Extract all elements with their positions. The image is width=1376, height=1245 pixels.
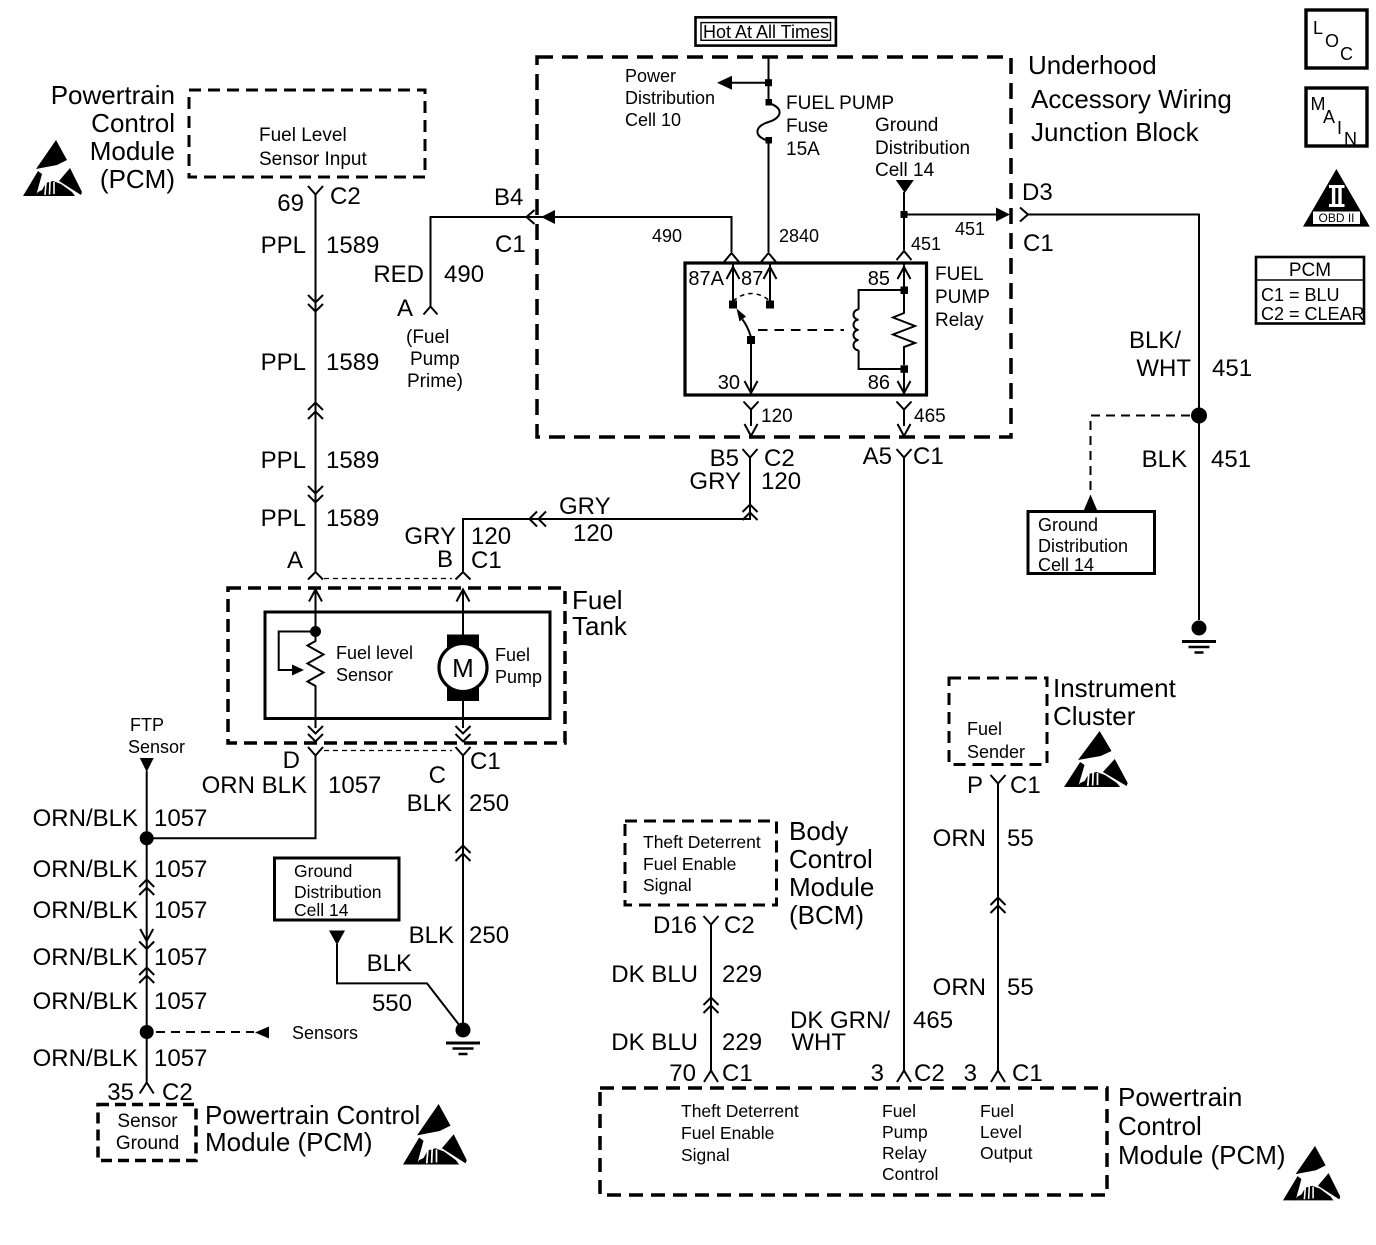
wire DK BLU 229 (BCM to PCM) — [710, 933, 712, 1070]
label BLK 451 — [1142, 446, 1251, 473]
module label: Powertrain Control Module (PCM) bottom-right — [1118, 1082, 1286, 1170]
wire 451 (ground distribution to relay pin 85) — [903, 192, 905, 250]
chevron at relay pin 85 — [897, 251, 912, 260]
svg-text:M: M — [452, 653, 474, 683]
splice chevrons (up) on DK BLU — [704, 998, 719, 1014]
terminal B chevron at fuel tank — [456, 572, 471, 580]
svg-text:35: 35 — [107, 1079, 134, 1106]
fuel level sensor junction dot — [310, 626, 321, 637]
svg-text:465: 465 — [914, 406, 946, 427]
wire BLK/WHT 451 (D3 to ground) — [1029, 215, 1200, 621]
connector chevron at PCM (3/C2) — [897, 1071, 911, 1083]
label: Theft Deterrent Fuel Enable Signal (BCM) — [643, 832, 761, 895]
svg-text:P: P — [967, 772, 983, 799]
svg-text:PUMP: PUMP — [935, 287, 990, 308]
svg-text:Fuel Enable: Fuel Enable — [681, 1123, 774, 1143]
svg-text:Sensor: Sensor — [336, 665, 393, 685]
svg-text:451: 451 — [1212, 355, 1252, 382]
module label: Powertrain Control Module (PCM) bottom-left — [205, 1100, 420, 1157]
svg-text:FUEL: FUEL — [935, 264, 984, 285]
label DK BLU 229 (lower) — [611, 1029, 762, 1056]
svg-text:Sensor: Sensor — [128, 737, 185, 757]
svg-text:Ground: Ground — [1038, 515, 1098, 535]
svg-text:RED: RED — [373, 261, 424, 288]
label ORN/BLK 1057 (1st) — [33, 805, 208, 832]
legend box MAIN — [1306, 88, 1367, 149]
svg-text:C: C — [1340, 44, 1353, 64]
module box: Underhood Accessory Wiring Junction Block (dashed) — [537, 57, 1011, 437]
svg-text:PPL: PPL — [261, 447, 306, 474]
label BLK 250 (upper) — [407, 790, 509, 817]
splice dot (junction with fuel level sensor wire) — [140, 831, 154, 845]
connector A5 / C1 (Y symbol) — [897, 449, 912, 466]
label PPL 1589 (4th) — [261, 505, 380, 532]
module box: Theft Deterrent Fuel Enable Signal (dashed) — [625, 821, 777, 905]
wire into fuel pump (up arrow) — [457, 590, 470, 641]
svg-text:C1: C1 — [470, 748, 501, 775]
svg-text:Fuel Enable: Fuel Enable — [643, 854, 736, 874]
splice chevrons (down) on PPL wire — [308, 486, 323, 503]
svg-text:30: 30 — [718, 372, 740, 394]
splice chevrons (up) on ORN 55 — [991, 898, 1006, 914]
label PPL 1589 (2nd) — [261, 349, 380, 376]
svg-text:D3: D3 — [1022, 179, 1053, 206]
svg-text:A: A — [397, 295, 413, 322]
svg-text:Fuel: Fuel — [980, 1101, 1014, 1121]
svg-text:Body: Body — [789, 816, 848, 846]
svg-text:451: 451 — [955, 219, 985, 239]
chevron at relay pin 87A — [724, 253, 739, 262]
splice chevrons (down) on PPL wire — [308, 295, 323, 312]
ground symbol (fuel pump ground G103) — [446, 1023, 480, 1055]
svg-text:229: 229 — [722, 1029, 762, 1056]
relay pin 85 (wire + up arrow) — [898, 263, 911, 290]
wire ORN 55 (fuel sender to PCM) — [997, 792, 999, 1070]
svg-text:C1: C1 — [471, 547, 502, 574]
arrowhead from Ground Distribution (filled triangle down) — [896, 180, 914, 193]
OBD II triangle symbol — [1303, 169, 1370, 227]
wire 451 (horizontal to D3) — [904, 214, 1004, 216]
svg-text:FUEL PUMP: FUEL PUMP — [786, 93, 894, 114]
svg-text:Theft Deterrent: Theft Deterrent — [643, 832, 761, 852]
svg-text:C1: C1 — [1023, 230, 1054, 257]
svg-text:A: A — [287, 547, 303, 574]
svg-text:1057: 1057 — [154, 856, 207, 883]
svg-text:Prime): Prime) — [407, 371, 463, 392]
svg-text:Fuse: Fuse — [786, 116, 828, 137]
label PPL 1589 (3rd) — [261, 447, 380, 474]
svg-text:Ground: Ground — [116, 1133, 179, 1154]
label: Fuel level Sensor — [336, 643, 413, 685]
module label: Powertrain Control Module (PCM) top-left — [51, 80, 175, 194]
svg-text:Instrument: Instrument — [1053, 673, 1177, 703]
svg-text:(Fuel: (Fuel — [406, 327, 449, 348]
label GRY 120 (at B) — [404, 523, 511, 550]
svg-text:1057: 1057 — [154, 1045, 207, 1072]
label box: Hot At All Times (double border) — [696, 17, 836, 45]
junction square dot on hot wire — [765, 79, 772, 86]
splice chevrons (up) on PPL wire — [308, 403, 323, 420]
svg-text:C1: C1 — [722, 1060, 753, 1087]
arrowhead from FTP Sensor (filled triangle down) — [140, 758, 154, 772]
svg-text:250: 250 — [469, 922, 509, 949]
wire out of fuel pump (to C) — [462, 700, 464, 728]
svg-text:Control: Control — [789, 844, 873, 874]
svg-text:Fuel: Fuel — [882, 1101, 916, 1121]
svg-text:Theft Deterrent: Theft Deterrent — [681, 1101, 799, 1121]
relay pin 87A (wire + up arrow + contact dot) — [727, 263, 740, 309]
svg-text:69: 69 — [277, 190, 304, 217]
svg-text:C2: C2 — [914, 1060, 945, 1087]
wire PPL 1589 (vertical) — [315, 203, 317, 572]
wire 120 (relay pin 30 to B5) — [744, 402, 759, 437]
label: Fuel Level Output — [980, 1101, 1033, 1163]
label: Theft Deterrent Fuel Enable Signal (PCM) — [681, 1101, 799, 1165]
module box: Sensor Ground (dashed) — [98, 1105, 196, 1161]
svg-text:ORN/BLK: ORN/BLK — [33, 897, 138, 924]
dashed branch to Sensors — [156, 1031, 254, 1033]
connector P / C1 (Y symbol) — [991, 775, 1006, 792]
arrowhead from Ground Distribution box (filled triangle down) — [329, 931, 345, 946]
wire out of fuel level sensor (to D) — [315, 718, 317, 728]
fuel tank inner solid box — [265, 612, 550, 719]
svg-text:D: D — [283, 747, 300, 774]
svg-text:Distribution: Distribution — [1038, 536, 1128, 556]
label: Power Distribution Cell 10 — [625, 66, 715, 130]
dashed actuation line (switch to coil) — [758, 329, 844, 331]
svg-text:1057: 1057 — [154, 944, 207, 971]
svg-text:490: 490 — [652, 226, 682, 246]
label: Fuel Pump Relay Control — [882, 1101, 938, 1184]
ground symbol (G100) — [1182, 621, 1216, 653]
svg-text:86: 86 — [868, 372, 890, 394]
svg-text:451: 451 — [1211, 446, 1251, 473]
svg-text:Power: Power — [625, 66, 676, 86]
svg-text:120: 120 — [761, 406, 793, 427]
relay pin 30 (wire + down arrow) — [745, 344, 758, 393]
svg-text:C2: C2 — [162, 1079, 193, 1106]
splice chevrons (up) between segments 4-5 — [139, 968, 154, 984]
thin dashed connector line A-B — [324, 578, 452, 580]
svg-text:250: 250 — [469, 790, 509, 817]
svg-text:3: 3 — [871, 1060, 884, 1087]
svg-text:Signal: Signal — [643, 875, 692, 895]
svg-text:1057: 1057 — [154, 805, 207, 832]
svg-text:Control: Control — [882, 1164, 938, 1184]
svg-text:C2: C2 — [724, 912, 755, 939]
svg-text:55: 55 — [1007, 825, 1034, 852]
svg-text:Powertrain: Powertrain — [1118, 1082, 1242, 1112]
fuel level sensor resistor (zigzag) — [308, 637, 324, 718]
svg-text:BLK/: BLK/ — [1129, 327, 1181, 354]
splice chevrons (up) between segments 2-3 — [139, 880, 154, 896]
svg-text:L: L — [1313, 18, 1323, 38]
svg-text:Relay: Relay — [882, 1143, 927, 1163]
label BLK/WHT 451 — [1129, 327, 1252, 382]
label GRY 120 (mid horizontal) — [559, 493, 613, 547]
label: Ground Distribution Cell 14 (right) — [1038, 515, 1128, 575]
svg-text:C1: C1 — [1010, 772, 1041, 799]
svg-text:465: 465 — [913, 1007, 953, 1034]
svg-text:Module: Module — [789, 872, 874, 902]
label: FTP Sensor — [128, 715, 185, 757]
svg-text:Control: Control — [91, 108, 175, 138]
svg-text:Powertrain: Powertrain — [51, 80, 175, 110]
label: (Fuel Pump Prime) — [406, 327, 463, 392]
svg-text:Cell 14: Cell 14 — [1038, 555, 1094, 575]
svg-text:OBD II: OBD II — [1318, 211, 1354, 225]
svg-text:87: 87 — [741, 268, 763, 290]
fuse FUEL PUMP 15A (curl symbol with end dots) — [757, 99, 779, 144]
svg-text:Sensor: Sensor — [117, 1111, 178, 1132]
svg-text:C1: C1 — [1012, 1060, 1043, 1087]
label ORN BLK 1057 (at D) — [202, 772, 382, 799]
arrowhead 451 (filled, right at border) — [996, 208, 1010, 222]
relay pin 87 (wire + up arrow + contact dot) — [764, 263, 777, 309]
module label: Body Control Module (BCM) — [789, 816, 874, 930]
svg-text:Fuel: Fuel — [495, 645, 530, 665]
label ORN/BLK 1057 (6th) — [33, 1045, 208, 1072]
label GRY 120 (below B5) — [689, 468, 801, 495]
svg-text:Module (PCM): Module (PCM) — [205, 1127, 373, 1157]
arrowhead to Ground Distribution box (filled triangle up) — [1084, 495, 1098, 512]
connector C (Y symbol) — [456, 747, 471, 762]
svg-text:C1 = BLU: C1 = BLU — [1261, 285, 1340, 305]
module box: Ground Distribution Cell 14 (right, solid) — [1028, 512, 1155, 574]
svg-text:C: C — [429, 762, 446, 789]
splice dot (junction with Sensors branch) — [140, 1025, 154, 1039]
label BLK 250 (lower) — [409, 922, 509, 949]
svg-text:1589: 1589 — [326, 447, 379, 474]
module box: Fuel Tank (dashed) — [228, 588, 565, 743]
svg-text:Control: Control — [1118, 1111, 1202, 1141]
svg-text:C2 = CLEAR: C2 = CLEAR — [1261, 304, 1365, 324]
svg-text:550: 550 — [372, 990, 412, 1017]
svg-text:1057: 1057 — [328, 772, 381, 799]
label ORN/BLK 1057 (5th) — [33, 988, 208, 1015]
svg-text:ORN: ORN — [933, 974, 986, 1001]
svg-text:Cluster: Cluster — [1053, 701, 1136, 731]
connector chevron at PCM (70/C1) — [704, 1071, 718, 1083]
svg-text:DK BLU: DK BLU — [611, 1029, 698, 1056]
wire 465 (relay pin 86 to A5) — [897, 402, 912, 437]
terminal A chevron (fuel pump prime) — [424, 307, 438, 315]
fuel level sensor wiper (bracket + arrow) — [279, 632, 316, 676]
arrowhead to Power Distribution (filled, left) — [717, 76, 732, 90]
svg-text:2840: 2840 — [779, 226, 819, 246]
legend box PCM connector colors — [1256, 257, 1365, 324]
svg-text:Module: Module — [90, 136, 175, 166]
splice chevrons (up) on GRY vertical — [743, 505, 758, 521]
label ORN/BLK 1057 (3rd) — [33, 897, 208, 924]
svg-text:(BCM): (BCM) — [789, 900, 864, 930]
ESD-sensitive symbol (top-left PCM) — [23, 140, 82, 196]
svg-text:Ground: Ground — [875, 115, 938, 136]
svg-text:70: 70 — [669, 1060, 696, 1087]
label: Fuel Level Sensor Input — [259, 125, 367, 170]
svg-text:B4: B4 — [494, 184, 523, 211]
svg-text:1589: 1589 — [326, 232, 379, 259]
svg-text:GRY: GRY — [689, 468, 741, 495]
wire: hot feed from fuse block (vertical) — [768, 57, 770, 102]
svg-text:Fuel Level: Fuel Level — [259, 125, 347, 146]
svg-text:Fuel: Fuel — [967, 719, 1002, 739]
label: Fuel Pump — [495, 645, 542, 687]
wire: branch to Power Distribution — [731, 82, 769, 84]
motor M fuel pump (brush caps + circle) — [439, 635, 487, 702]
connector D3 / C1 (chevron) — [1020, 208, 1028, 222]
svg-text:N: N — [1344, 129, 1357, 149]
svg-text:ORN/BLK: ORN/BLK — [33, 944, 138, 971]
wire BLK 250 (C to ground) — [462, 762, 464, 1027]
relay U: FUEL PUMP Relay box — [685, 263, 927, 395]
relay coil (parallel branch left) — [854, 287, 909, 373]
wire 2840 (fuse to relay pin 87) — [768, 143, 770, 252]
svg-text:Sensors: Sensors — [292, 1023, 358, 1043]
arrowhead 490 (filled, pointing left at border) — [541, 210, 555, 224]
svg-text:BLK: BLK — [1142, 446, 1187, 473]
wire RED 490 (B4 to fuel pump prime) — [431, 217, 732, 306]
svg-text:120: 120 — [471, 523, 511, 550]
svg-text:451: 451 — [911, 234, 941, 254]
svg-text:Sensor Input: Sensor Input — [259, 149, 367, 170]
svg-text:BLK: BLK — [407, 790, 452, 817]
svg-text:Sender: Sender — [967, 742, 1025, 762]
label ORN 55 (lower) — [933, 974, 1034, 1001]
svg-text:BLK: BLK — [409, 922, 454, 949]
wire ORN BLK 1057 (D down and left to splice) — [153, 762, 316, 838]
module box: Fuel Level Sensor Input (dashed) — [189, 90, 425, 177]
svg-text:Fuel level: Fuel level — [336, 643, 413, 663]
svg-text:ORN BLK: ORN BLK — [202, 772, 307, 799]
module label: Underhood Accessory Wiring Junction Block — [1028, 50, 1232, 147]
svg-text:I: I — [1337, 118, 1342, 138]
double chevrons down at tank bottom (sensor) — [308, 726, 323, 742]
dashed arc between 87A and 87 contacts — [733, 294, 770, 302]
connector B4 / C1 (chevron at junction border) — [527, 210, 535, 224]
label BLK 550 — [367, 950, 412, 1017]
svg-text:B: B — [437, 546, 453, 573]
svg-text:ORN/BLK: ORN/BLK — [33, 988, 138, 1015]
wire into fuel level sensor (up arrow) — [309, 590, 322, 632]
splice chevrons (up) on BLK 250 — [456, 846, 471, 862]
dashed branch to Ground Distribution Cell 14 — [1091, 416, 1191, 495]
wire ORN/BLK 1057 (FTP sensor ladder) — [146, 771, 148, 1082]
svg-text:Hot At All Times: Hot At All Times — [703, 22, 829, 42]
svg-text:C2: C2 — [330, 183, 361, 210]
svg-text:D16: D16 — [653, 912, 697, 939]
svg-text:87A: 87A — [688, 268, 724, 290]
label DK GRN/ WHT — [790, 1007, 890, 1056]
label: FUEL PUMP Fuse 15A — [786, 93, 894, 160]
svg-text:A: A — [1323, 107, 1335, 127]
svg-text:Underhood: Underhood — [1028, 50, 1157, 80]
svg-text:C1: C1 — [913, 443, 944, 470]
svg-text:15A: 15A — [786, 139, 820, 160]
svg-text:ORN/BLK: ORN/BLK — [33, 1045, 138, 1072]
svg-text:ORN/BLK: ORN/BLK — [33, 805, 138, 832]
chevron at relay pin 87 — [761, 253, 776, 262]
legend box LOC — [1306, 10, 1367, 68]
thin dashed connector line D-C — [324, 750, 452, 752]
svg-text:1057: 1057 — [154, 897, 207, 924]
svg-text:PCM: PCM — [1289, 260, 1331, 281]
connector D16 / C2 (Y symbol) — [704, 916, 719, 933]
svg-text:Junction Block: Junction Block — [1031, 117, 1200, 147]
svg-text:Pump: Pump — [495, 667, 542, 687]
connector chevron at PCM (3/C1) — [991, 1071, 1005, 1083]
ESD-sensitive symbol (instrument cluster) — [1064, 731, 1128, 787]
svg-text:Distribution: Distribution — [875, 138, 970, 159]
svg-text:DK BLU: DK BLU — [611, 961, 698, 988]
label: Ground Distribution Cell 14 (left) — [294, 861, 382, 920]
svg-text:(PCM): (PCM) — [100, 164, 175, 194]
label: Fuel Sender — [967, 719, 1025, 762]
module box: Powertrain Control Module PCM bottom (dashed) — [600, 1088, 1107, 1195]
relay resistor (zigzag, parallel branch right) — [893, 294, 915, 365]
junction square dot on 451 wire — [901, 211, 908, 218]
svg-text:Level: Level — [980, 1122, 1022, 1142]
splice chevrons (left) on GRY horizontal — [530, 512, 547, 527]
svg-text:Cell 14: Cell 14 — [294, 900, 349, 920]
svg-text:1589: 1589 — [326, 505, 379, 532]
relay switch blade (pivot dot, blade, arrowhead) — [737, 309, 756, 345]
svg-text:ORN: ORN — [933, 825, 986, 852]
svg-text:PPL: PPL — [261, 232, 306, 259]
label ORN/BLK 1057 (4th) — [33, 944, 208, 971]
svg-text:120: 120 — [761, 468, 801, 495]
svg-text:Powertrain Control: Powertrain Control — [205, 1100, 420, 1130]
svg-text:Cell 10: Cell 10 — [625, 110, 681, 130]
svg-text:Signal: Signal — [681, 1145, 730, 1165]
svg-text:85: 85 — [868, 268, 890, 290]
svg-text:ORN/BLK: ORN/BLK — [33, 856, 138, 883]
svg-text:A5: A5 — [863, 443, 892, 470]
label ORN 55 (upper) — [933, 825, 1034, 852]
splice dot on BLK/WHT wire — [1191, 408, 1207, 424]
svg-text:Accessory Wiring: Accessory Wiring — [1031, 84, 1232, 114]
module box: Fuel Sender (dashed) — [949, 678, 1047, 765]
svg-text:Pump: Pump — [882, 1122, 928, 1142]
svg-text:GRY: GRY — [559, 493, 611, 520]
svg-text:1057: 1057 — [154, 988, 207, 1015]
label PPL 1589 (1st) — [261, 232, 380, 259]
connector 69 / C2 (Y symbol) — [308, 186, 323, 203]
svg-text:FTP: FTP — [130, 715, 164, 735]
svg-text:490: 490 — [444, 261, 484, 288]
module box: Ground Distribution Cell 14 (left, solid) — [275, 858, 400, 920]
svg-text:Module (PCM): Module (PCM) — [1118, 1140, 1286, 1170]
label: Sensor Ground — [116, 1111, 179, 1154]
svg-text:55: 55 — [1007, 974, 1034, 1001]
svg-text:C1: C1 — [495, 231, 526, 258]
wire BLK 550 (to ground) — [337, 944, 460, 1026]
module label: Fuel Tank — [572, 585, 628, 641]
label RED 490 — [373, 261, 484, 288]
in-line connector (down arrow into Y) between segments 3-4 — [139, 929, 154, 949]
svg-text:WHT: WHT — [791, 1029, 846, 1056]
svg-text:PPL: PPL — [261, 505, 306, 532]
svg-text:229: 229 — [722, 961, 762, 988]
arrowhead Sensors (filled, pointing left) — [255, 1027, 269, 1039]
svg-text:O: O — [1325, 31, 1339, 51]
svg-text:Cell 14: Cell 14 — [875, 160, 935, 181]
svg-text:Tank: Tank — [572, 611, 628, 641]
svg-text:WHT: WHT — [1136, 355, 1191, 382]
relay pin 86 (wire + down arrow) — [898, 372, 911, 393]
terminal A chevron at fuel tank — [308, 572, 323, 580]
svg-text:Ground: Ground — [294, 861, 352, 881]
